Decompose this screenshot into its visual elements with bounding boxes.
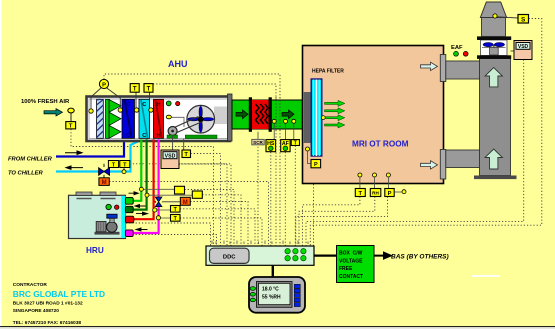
wire DDC to display (272, 265, 274, 277)
wire vertical T2 loop over duct (275, 130, 277, 246)
HEPA filter (311, 79, 322, 156)
svg-text:M: M (102, 180, 107, 186)
wire T room to DDC (303, 197, 360, 246)
arrow duct flow 1 (236, 110, 248, 119)
sensor dot + P box below hepa (306, 147, 321, 168)
sensor taps (yellow dots) in AHU (89, 109, 93, 113)
EAF status lamps (454, 51, 459, 56)
HRU port 4 (hot return) (125, 230, 133, 237)
fan casing white (481, 40, 508, 56)
wire VSD(AHU) to DDC (179, 164, 227, 246)
wire chiller TT boxes to DDC (130, 164, 231, 246)
wire T fresh-air damper to DDC (71, 129, 214, 246)
svg-text:BLK 3027 UBI ROAD 1 #01-132: BLK 3027 UBI ROAD 1 #01-132 (13, 301, 83, 307)
svg-text:C: C (142, 102, 146, 108)
white artifact dash (472, 275, 500, 277)
svg-text:55 %RH: 55 %RH (262, 295, 281, 301)
filter F1 (panel filter, hatched) (97, 99, 104, 138)
red stub to valve (154, 201, 156, 203)
pump (95, 232, 120, 235)
wire SCR to DDC (257, 144, 259, 247)
svg-text:TEL: 67457210 FAX: 67416038: TEL: 67457210 FAX: 67416038 (13, 320, 82, 326)
pipe chilled water supply (blue) (56, 140, 124, 157)
sensor box HS (266, 140, 276, 152)
svg-text:P: P (314, 162, 318, 168)
status lamps (106, 204, 111, 209)
wire HRU status to DDC (126, 223, 211, 246)
exhaust outlet arrow top (421, 62, 438, 70)
sensor box S (518, 15, 529, 24)
svg-text:M: M (183, 200, 188, 206)
svg-text:HRU: HRU (86, 246, 104, 255)
wire T4 to DDC (180, 218, 262, 246)
coil C1 (chilled water coil, blue) (122, 99, 135, 139)
pipe chilled water return (cyan) (56, 140, 142, 172)
wire T2(AHU top) to DDC (153, 84, 276, 130)
outlet flange bottom (440, 150, 446, 180)
sensor dot at hepa face (321, 116, 325, 120)
svg-text:TO CHILLER: TO CHILLER (8, 171, 43, 177)
sensor box T (chiller) 2 (120, 161, 130, 171)
arrow on HRU supply (129, 192, 139, 195)
BAS interface box (337, 246, 375, 283)
svg-text:SINGAPORE 408720: SINGAPORE 408720 (13, 308, 59, 314)
sensor box T fresh air (66, 122, 76, 130)
node dot on green pipe + wire (139, 187, 174, 191)
wire S sensor to DDC (310, 19, 542, 247)
valve V2 hot water (155, 197, 180, 207)
node dot on magenta pipe + wire to T4 (156, 216, 170, 220)
svg-text:100% FRESH AIR: 100% FRESH AIR (21, 99, 70, 105)
duct heater EH-1 (252, 100, 269, 129)
AHU casing (87, 97, 231, 142)
fan blades (483, 43, 493, 47)
mounting band lower (477, 55, 511, 59)
svg-text:T: T (294, 140, 297, 146)
svg-text:FROM CHILLER: FROM CHILLER (8, 157, 53, 163)
sensor dot fan + wire (166, 115, 184, 127)
svg-text:EAF: EAF (451, 45, 463, 51)
exhaust duct top horizontal (446, 61, 480, 79)
arrow riser flow top (485, 68, 502, 87)
sensor box T3 (171, 206, 181, 214)
sensor box RH room (370, 189, 381, 197)
reference pressure dot (394, 190, 406, 194)
duct sensor taps (272, 119, 276, 123)
svg-text:VSD: VSD (165, 153, 176, 159)
arrow on hot supply (136, 212, 148, 215)
terminal ticks above DDC (212, 241, 308, 245)
sensor box1 (blank) (175, 186, 185, 194)
sensor box AF (281, 140, 290, 152)
svg-text:BRC GLOBAL PTE LTD: BRC GLOBAL PTE LTD (13, 289, 105, 299)
sensor box T (chiller) 1 (108, 161, 118, 169)
damper actuator (68, 108, 74, 122)
operator display unit (249, 277, 305, 313)
filter F2 (bag filter, green triangles) (106, 99, 122, 138)
wire DDC to BAS box (314, 255, 337, 257)
arrow to BAS (374, 253, 391, 259)
outlet flange top (440, 55, 446, 82)
sensor box2 (blank) (192, 191, 202, 198)
wire HS to DDC (270, 152, 272, 246)
node dot on dark green pipe + wire (145, 193, 192, 197)
svg-text:T: T (184, 152, 188, 158)
exhaust outlet arrow bottom (421, 161, 438, 169)
svg-text:BOX C/W: BOX C/W (339, 251, 363, 257)
svg-text:C: C (126, 102, 130, 108)
sensor box T4 (171, 215, 181, 223)
VSD box below AHU (161, 150, 179, 169)
bottom border line (0, 326, 555, 327)
fan backdrop gray (214, 107, 228, 125)
sensor box T1 above AHU (130, 84, 139, 108)
wire M2 hot-valve to DDC (190, 202, 248, 247)
svg-text:AHU: AHU (168, 59, 188, 69)
sensor box T room (355, 189, 365, 198)
fan mounts (green) (167, 135, 178, 138)
svg-text:FREE: FREE (339, 266, 353, 272)
pipe hot water return (magenta) lower (133, 207, 159, 233)
svg-text:T: T (69, 124, 73, 130)
coil C2 (HRU cooling coil, cyan) (139, 99, 150, 139)
valve V1 chilled water (99, 164, 110, 178)
wire HRU pump status to DDC (126, 235, 217, 247)
wire vertical P loop over duct (279, 130, 281, 246)
wire P room to DDC (296, 197, 388, 246)
fan motor pulley + belt (168, 117, 202, 136)
node dot on return line (122, 170, 126, 174)
HRU port 3 (hot supply) (125, 216, 133, 223)
heater flange left (249, 97, 252, 132)
wire sensor box1 to DDC (185, 190, 235, 247)
DDC controller (206, 246, 314, 265)
svg-text:T: T (359, 191, 363, 197)
mounting band upper (477, 36, 511, 40)
svg-text:S: S (521, 17, 526, 24)
fan motor (490, 47, 499, 55)
actuator M2 hot water valve (180, 197, 190, 206)
discharge plenum (482, 18, 506, 37)
svg-text:VOLTAGE: VOLTAGE (339, 258, 363, 264)
svg-text:BAS (BY OTHERS): BAS (BY OTHERS) (391, 254, 449, 261)
svg-text:18.0 °C: 18.0 °C (262, 287, 279, 293)
svg-text:C: C (142, 133, 146, 139)
pipe HRU supply (light green) (133, 139, 141, 201)
wire sensor box2 to DDC (202, 195, 241, 246)
arrow riser flow bottom (485, 149, 502, 169)
svg-text:T: T (133, 87, 137, 93)
SCR controller (252, 139, 264, 145)
sensor box T2 above AHU (144, 84, 153, 108)
supply fan SF-1 (187, 105, 215, 133)
top caps (76, 192, 92, 195)
HRU port 2 (return) (125, 206, 133, 212)
sensor P (filter dP) above AHU (91, 79, 120, 109)
pipe hot water supply (red) (134, 139, 154, 219)
arrow fresh air (44, 109, 63, 116)
svg-text:RH: RH (372, 191, 379, 196)
arrow flow right on supply (65, 151, 82, 154)
wire P(AHU) to DDC (104, 74, 280, 130)
actuator M1 chiller valve (99, 178, 109, 186)
wires fan to VSD/T below (173, 136, 184, 150)
HRU unit (69, 192, 126, 239)
room outline (303, 46, 444, 184)
wire RH room to DDC (299, 197, 375, 246)
svg-text:MRI OT ROOM: MRI OT ROOM (352, 139, 409, 148)
arrow flow left on return (66, 166, 83, 169)
wire AF to DDC (284, 152, 286, 246)
svg-text:CONTRACTOR: CONTRACTOR (13, 282, 48, 288)
wire verticals over duct upper (276, 97, 280, 130)
wire P hepa to DDC (313, 168, 315, 246)
exhaust riser duct (480, 59, 511, 176)
arrow duct flow 2 (282, 110, 294, 119)
wall penetration block (304, 92, 311, 143)
pipe HRU return (dark green) (133, 139, 147, 209)
HRU port 1 (supply) (125, 197, 133, 204)
exhaust duct bottom horizontal (446, 150, 480, 168)
arrow on hot return (136, 228, 148, 231)
svg-text:C: C (126, 133, 130, 139)
svg-text:SCR: SCR (253, 140, 263, 145)
exhaust fan EAF assembly (477, 2, 518, 59)
riser base flange (474, 176, 517, 180)
svg-text:DDC: DDC (223, 255, 236, 261)
status lamps fan section (166, 101, 171, 106)
VSD box EAF (511, 41, 533, 60)
wire T3 to DDC (180, 209, 255, 246)
svg-text:T: T (147, 87, 151, 93)
sensor box T below fan (182, 150, 191, 158)
supply air arrows in room (325, 100, 345, 128)
pipe hot water return (magenta) upper (158, 139, 160, 197)
heater flange right (269, 97, 272, 132)
sensor box T duct (291, 140, 299, 147)
AHU right wall (228, 94, 233, 141)
svg-text:VSD: VSD (518, 44, 529, 50)
sensor dot on cowl (493, 14, 497, 18)
svg-text:CONTACT: CONTACT (339, 274, 363, 280)
svg-text:H: H (157, 133, 161, 139)
coil H1 (hot water coil, red) (154, 99, 164, 139)
roof cowl (480, 2, 506, 18)
wire T supply-fan to DDC (191, 154, 221, 247)
svg-text:HEPA FILTER: HEPA FILTER (312, 69, 344, 75)
wire T duct to DDC (294, 146, 296, 247)
wire M chiller valve to DDC (109, 182, 268, 247)
arrow on HRU return (135, 205, 146, 208)
svg-text:P: P (102, 82, 106, 88)
wire VSD(EAF) to DDC (306, 60, 524, 247)
supply duct (green) (232, 100, 304, 129)
room sensor taps (358, 173, 362, 177)
node dot on red pipe + wire to T3 (153, 208, 171, 212)
svg-text:P: P (388, 191, 392, 197)
sensor box P room (385, 189, 394, 198)
svg-text:H: H (157, 102, 161, 108)
